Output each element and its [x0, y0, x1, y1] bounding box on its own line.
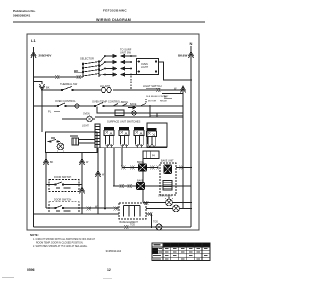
oven light bulb — [166, 199, 173, 206]
connector plug on wire y90 right — [156, 88, 161, 92]
oven sensor dashed group — [160, 160, 192, 196]
table row lines — [152, 247, 210, 257]
svg-text:OVEN CONTROL: OVEN CONTROL — [55, 99, 76, 103]
footer small mark center — [103, 277, 112, 280]
svg-text:0596: 0596 — [27, 268, 35, 272]
svg-text:OVEN: OVEN — [83, 114, 90, 116]
surface bus top y117 — [95, 116, 183, 118]
svg-text:BAKE UNIT: BAKE UNIT — [161, 160, 174, 163]
svg-text:BK&W: BK&W — [178, 54, 187, 58]
svg-text:WIRING DIAGRAM: WIRING DIAGRAM — [96, 18, 131, 22]
door switch 1 to 2 feed — [45, 185, 47, 209]
drop wire x105 to bake element wire — [104, 148, 106, 209]
svg-text:DLB RELAY: DLB RELAY — [146, 95, 158, 98]
lamp symbol inside assembly — [57, 143, 64, 150]
relay contact on y106 right — [140, 103, 146, 106]
connector plug on N line top — [189, 52, 194, 59]
svg-text:TOD: TOD — [153, 221, 158, 224]
dashed drop from row4 to oven wire — [130, 76, 132, 90]
svg-text:ROOM TEMP. DOOR IN CLOSED POSI: ROOM TEMP. DOOR IN CLOSED POSITION. — [36, 243, 84, 245]
wire color code table — [152, 243, 210, 261]
table left black cell — [153, 248, 159, 254]
wire N vertical — [190, 46, 192, 227]
wire from group to N — [176, 167, 191, 169]
svg-text:3195011144: 3195011144 — [106, 249, 122, 253]
wire row — [143, 202, 191, 204]
svg-text:BAKE: BAKE — [130, 103, 137, 106]
connector tail dots — [104, 55, 132, 75]
lamp assembly box — [46, 132, 98, 153]
drop wire x98 from bus to bottom bus — [97, 148, 99, 214]
switch inside lamp assembly — [50, 138, 56, 142]
svg-text:W: W — [102, 175, 105, 177]
svg-text:NOTE:: NOTE: — [30, 233, 39, 237]
connector plug row1 c — [150, 166, 155, 170]
surface bus bottom — [95, 147, 167, 149]
wires from terminal box to strip — [79, 140, 96, 144]
neutral bus y214 — [34, 214, 152, 227]
box around surface unit switch SW4 — [147, 123, 167, 147]
dashed stub above relay contact — [145, 99, 147, 104]
drop wire from block P4 to oven light row — [142, 159, 144, 203]
surface unit switch SW4 — [147, 128, 157, 146]
terminal box inside assembly — [72, 138, 79, 145]
table column lines — [163, 243, 202, 261]
oven light row y203 — [143, 195, 192, 206]
footer small mark left — [2, 276, 14, 279]
header rule — [13, 22, 205, 23]
svg-text:DOOR SWITCH: DOOR SWITCH — [54, 176, 72, 179]
element inside group top — [164, 165, 173, 175]
svg-text:2. SWITCHES SHOWN AT 75 F AND: 2. SWITCHES SHOWN AT 75 F AND AT SEA LEV… — [33, 245, 88, 248]
terminal strip left of switch bank — [95, 124, 100, 148]
connector plug pair row2 b — [128, 184, 133, 188]
indicator circle on y106 — [75, 104, 79, 108]
pilot circle on y113 — [132, 111, 136, 115]
connector row 2 plug arrows y62 — [105, 60, 131, 63]
connector plug row1 d — [157, 166, 160, 170]
door switch 2 contacts — [46, 206, 71, 212]
surface unit switch SW2 — [119, 127, 129, 148]
contact marks on y106 — [113, 104, 127, 107]
svg-text:RELAY: RELAY — [160, 100, 168, 103]
svg-text:TOD: TOD — [130, 224, 135, 227]
svg-text:Publication No.: Publication No. — [13, 9, 36, 13]
svg-text:N: N — [190, 41, 193, 46]
coil element on wire y90 — [101, 88, 112, 93]
connector plug on x82 lower — [80, 187, 85, 194]
svg-text:LIGHT SWITCH: LIGHT SWITCH — [143, 84, 162, 88]
svg-text:BROIL: BROIL — [121, 101, 129, 104]
drop wire x114 to broil row — [114, 148, 121, 186]
bake element terminal dashed box — [119, 203, 146, 224]
small relay box on y113 — [115, 110, 124, 116]
connector row 4 plug arrows y74.5 — [105, 73, 137, 76]
connector plug pair row1 a — [121, 166, 126, 170]
svg-text:PL: PL — [48, 110, 52, 114]
connector plug on bus y227 — [124, 225, 129, 229]
svg-text:THERMAL SW: THERMAL SW — [60, 82, 78, 86]
svg-text:LIGHT: LIGHT — [141, 66, 149, 69]
wire row2 — [113, 185, 191, 187]
bake element row y167.5 — [121, 161, 159, 172]
wire into terminal box from door switch 2 — [71, 207, 120, 209]
oven selector switch bank — [82, 61, 99, 78]
svg-text:P4: P4 — [152, 156, 156, 158]
connector plug on x183 — [181, 86, 186, 93]
stub from y106 down to bus — [149, 106, 151, 117]
svg-text:DOOR SWITCH: DOOR SWITCH — [54, 199, 72, 202]
svg-text:OVEN LIGHT: OVEN LIGHT — [158, 195, 173, 198]
door switch feed wire x82 — [81, 152, 83, 214]
wire inside lamp assembly — [48, 141, 61, 143]
connector plug on row — [144, 201, 149, 205]
svg-text:HI-LIMIT: HI-LIMIT — [100, 84, 111, 88]
door switch 1 dashed box — [49, 180, 79, 192]
svg-text:1. CIRCUIT SHOWN WITH ALL SWIT: 1. CIRCUIT SHOWN WITH ALL SWITCHES IN OF… — [33, 238, 95, 241]
short wire y93 right — [162, 93, 183, 95]
branch from L1 to x42 feed — [34, 82, 43, 85]
svg-text:5995268341: 5995268341 — [13, 13, 30, 17]
wire y115 right — [150, 114, 183, 116]
connector plug pair row2 a — [120, 184, 125, 188]
connector plug on x42 feed — [40, 84, 45, 91]
table header black band — [163, 243, 210, 247]
connector plug on x46 — [44, 159, 49, 166]
vertical collector wire x183 — [182, 86, 184, 209]
wire oven circuit y90 — [42, 89, 183, 91]
outer border of schematic — [27, 34, 199, 230]
svg-text:208/240V: 208/240V — [39, 54, 52, 58]
coil inside group bottom — [163, 181, 172, 191]
header publication text — [13, 9, 36, 17]
svg-text:OVEN TEMP CONTROL: OVEN TEMP CONTROL — [92, 100, 121, 104]
wire L1 vertical — [33, 47, 35, 227]
wire row1 — [122, 167, 159, 169]
wire from terminal box to motor — [146, 208, 191, 210]
junction on x183 top — [182, 89, 184, 91]
svg-text:MOTOR: MOTOR — [148, 101, 157, 103]
connector plug pair row1 b — [130, 166, 135, 170]
svg-text:LIGHT: LIGHT — [82, 126, 89, 128]
feed into lamp assembly from x42 branch — [41, 90, 43, 132]
connector pair on bus y77 — [55, 75, 60, 79]
connector plug on x82 upper — [80, 159, 85, 166]
svg-text:CONTACT: CONTACT — [158, 95, 169, 98]
connector plug before element box — [114, 207, 119, 211]
connector plug on L1 line — [31, 52, 36, 59]
svg-text:UNIT SW: UNIT SW — [120, 51, 131, 55]
terminal block P4 under bus — [143, 151, 159, 159]
svg-text:SURFACE UNIT SWITCHES: SURFACE UNIT SWITCHES — [107, 120, 141, 124]
svg-text:W: W — [86, 161, 89, 164]
door switch feed wire x46 — [45, 152, 47, 185]
oven lamp PL circle — [87, 116, 93, 122]
wire L1 feed bus y77 — [34, 76, 84, 78]
junction y106 x150 — [149, 105, 151, 107]
label above terminal box — [70, 135, 78, 137]
switch2 on y106 — [95, 103, 105, 107]
drop wire x122 to bake row — [121, 148, 123, 168]
wire from lamp box to N — [159, 62, 192, 80]
switch on y106 left — [58, 103, 65, 106]
door switch 2 dashed box — [49, 202, 79, 214]
svg-text:L1: L1 — [31, 38, 36, 43]
svg-text:BK: BK — [46, 86, 50, 90]
plug right of group — [179, 166, 184, 170]
surface unit switch SW1 — [104, 127, 114, 148]
broil element block — [138, 164, 147, 172]
svg-text:SELECTOR: SELECTOR — [80, 57, 94, 61]
connector row 3 plug arrows y68.5 — [105, 67, 131, 70]
junction on bus y227 — [151, 226, 153, 228]
svg-text:BK: BK — [74, 69, 79, 73]
connector plug on bus y214 — [148, 212, 153, 216]
connector plug on x98 — [96, 171, 101, 178]
svg-text:BAKE ELEMENT: BAKE ELEMENT — [120, 221, 139, 224]
connector row 1 plug arrows y56 — [105, 54, 137, 57]
table cell text smudges — [153, 244, 208, 259]
oven lamp box U1 — [137, 59, 159, 75]
wire oven control y106 — [34, 105, 184, 107]
notes block — [30, 233, 95, 248]
svg-text:12: 12 — [107, 268, 111, 272]
wires from bank to connector rows — [99, 56, 105, 75]
second connector pair on bus y77 — [77, 75, 82, 79]
surface unit switch SW3 — [134, 127, 144, 148]
wire y113 — [97, 107, 183, 114]
junction of drop x105 on wire y208 — [104, 208, 106, 210]
stub from y113 down to bus — [156, 113, 158, 117]
door switch 1 contacts — [46, 182, 82, 188]
svg-text:FEF352BAWC: FEF352BAWC — [103, 9, 127, 13]
convection motor circle — [173, 205, 180, 212]
ground bus y227 — [34, 226, 192, 228]
svg-text:BK: BK — [50, 161, 54, 164]
thermal cutout circle on bus y227 — [156, 224, 162, 230]
connector plug on wire y208 — [87, 207, 92, 211]
switch S1 door on wire y90 — [62, 87, 74, 91]
wire through lamp PL — [62, 118, 95, 120]
bake element block — [136, 182, 145, 190]
broil element row y186 — [113, 180, 191, 191]
arrow marks mid y107 — [128, 106, 136, 109]
